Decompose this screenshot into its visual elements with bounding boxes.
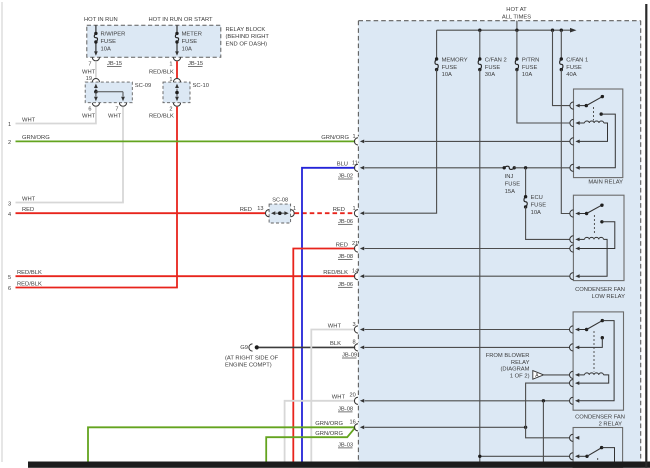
svg-text:5: 5 bbox=[8, 275, 11, 281]
svg-text:FUSE: FUSE bbox=[182, 39, 198, 45]
svg-text:SC-08: SC-08 bbox=[272, 197, 288, 203]
wire C/FAN2 fuse to bottom relay pin bbox=[480, 455, 570, 457]
svg-text:GRN/ORG: GRN/ORG bbox=[22, 135, 50, 141]
svg-text:RED/BLK: RED/BLK bbox=[149, 114, 174, 120]
svg-text:LOW RELAY: LOW RELAY bbox=[592, 294, 626, 300]
CONDENSER FAN 2 RELAY mech link bbox=[593, 331, 595, 372]
box edge connector pins (left edge) bbox=[354, 138, 358, 145]
svg-text:WHT: WHT bbox=[108, 114, 122, 120]
node INJ/ECU junction bbox=[524, 166, 527, 169]
wire RED/BLK row 5 to box pin 14 JB-06 bbox=[16, 275, 356, 277]
wire GRN/ORG internal JB pin1 to MAIN RELAY bbox=[365, 140, 570, 142]
svg-text:WHT: WHT bbox=[22, 117, 36, 123]
relay condenser fan high (cut off at bottom) bbox=[573, 428, 623, 468]
wire GRN/ORG second branch from pin 16 bbox=[266, 428, 355, 462]
wire RED dashed from SC-08 to box pin 1 JB-06 bbox=[295, 212, 356, 214]
wire JB pin3 WHT to CONDENSER FAN 2 RELAY bbox=[365, 329, 570, 331]
splice SC-10 bbox=[163, 82, 190, 103]
svg-text:FROM BLOWER: FROM BLOWER bbox=[486, 353, 530, 359]
big relay/fuse box background (HOT AT ALL TIMES box) bbox=[358, 21, 640, 468]
svg-text:4: 4 bbox=[8, 212, 11, 218]
wire MEMORY fuse to JB-06 pin 1 bbox=[365, 70, 437, 214]
wire RED vertical and to box pin 21 JB-08 bbox=[293, 249, 355, 462]
svg-text:ENGINE COMPT): ENGINE COMPT) bbox=[225, 363, 272, 369]
wire JB-08 pin21 to CONDENSER FAN LOW RELAY bbox=[365, 248, 570, 250]
wire BLU vertical and to box pin 11 JB-02 bbox=[302, 168, 355, 462]
splice SC-08 bbox=[269, 204, 291, 223]
fuse R/WIPER FUSE 10A bbox=[95, 25, 97, 33]
svg-text:2: 2 bbox=[8, 140, 11, 146]
fuse C/FAN 1 FUSE 40A bbox=[560, 30, 562, 59]
wire BLK from G9 to box pin 8 JB-09 bbox=[259, 346, 356, 348]
wire bus to MAIN RELAY switch pin bbox=[553, 30, 570, 105]
svg-text:1: 1 bbox=[293, 206, 296, 212]
svg-text:RED: RED bbox=[22, 207, 34, 213]
svg-text:1: 1 bbox=[169, 62, 172, 68]
svg-text:MEMORY: MEMORY bbox=[442, 57, 468, 63]
svg-text:(DIAGRAM: (DIAGRAM bbox=[501, 367, 530, 373]
feed wire from top edge bbox=[516, 21, 518, 31]
wire JB-03 pin16 to coil return junction bbox=[365, 426, 526, 428]
wire JB-08 pin20 WHT to CONDENSER FAN 2 RELAY bbox=[365, 400, 570, 402]
svg-text:1: 1 bbox=[8, 122, 11, 128]
wire CONDENSER FAN 2 RELAY coil return down to bottom relay bbox=[526, 383, 570, 438]
svg-text:G9: G9 bbox=[240, 345, 248, 351]
svg-text:CONDENSER FAN: CONDENSER FAN bbox=[575, 287, 625, 293]
CONDENSER FAN LOW RELAY mech link bbox=[593, 215, 595, 235]
svg-text:10A: 10A bbox=[101, 46, 111, 52]
svg-text:10A: 10A bbox=[522, 72, 532, 78]
wire C/FAN2 fuse down to bottom relay bbox=[479, 70, 481, 462]
MAIN RELAY switch bbox=[579, 105, 587, 107]
wire GRN/ORG row to box pin 16 JB-03 and down at far left bbox=[88, 427, 355, 461]
fuse ECU FUSE 10A bbox=[525, 168, 527, 197]
svg-text:BLU: BLU bbox=[337, 162, 348, 168]
svg-text:RED/BLK: RED/BLK bbox=[17, 270, 42, 276]
wire WHT to box pin 20 JB-08 and down bbox=[285, 401, 356, 462]
svg-text:CONDENSER FAN: CONDENSER FAN bbox=[575, 415, 625, 421]
wire JB-06 pin14 to CONDENSER FAN LOW RELAY bbox=[365, 275, 570, 277]
svg-text:HOT IN RUN: HOT IN RUN bbox=[84, 17, 118, 23]
fuse INJ FUSE 15A bbox=[503, 166, 506, 169]
svg-text:FUSE: FUSE bbox=[505, 182, 521, 188]
svg-text:RED: RED bbox=[240, 207, 252, 213]
svg-text:7: 7 bbox=[88, 62, 91, 68]
svg-text:FUSE: FUSE bbox=[522, 65, 538, 71]
MAIN RELAY coil bbox=[579, 122, 585, 124]
svg-text:(AT RIGHT SIDE OF: (AT RIGHT SIDE OF bbox=[225, 356, 279, 362]
svg-text:METER: METER bbox=[182, 32, 202, 38]
svg-text:RED: RED bbox=[333, 207, 345, 213]
svg-text:INJ: INJ bbox=[505, 174, 514, 180]
svg-text:GRN/ORG: GRN/ORG bbox=[315, 431, 343, 437]
svg-text:C/FAN 2: C/FAN 2 bbox=[485, 57, 507, 63]
svg-text:40A: 40A bbox=[566, 72, 576, 78]
wire GRN/ORG row 2 to box pin 1 bbox=[16, 140, 356, 142]
svg-text:RELAY: RELAY bbox=[511, 360, 530, 366]
fuse MEMORY FUSE 10A bbox=[436, 30, 438, 59]
wire P/TRN fuse to MAIN RELAY coil pin bbox=[517, 70, 570, 123]
svg-text:BLK: BLK bbox=[330, 341, 341, 347]
svg-text:RED/BLK: RED/BLK bbox=[149, 70, 174, 76]
svg-text:10A: 10A bbox=[442, 72, 452, 78]
connector JB-15 pin 7 bbox=[92, 57, 99, 61]
CONDENSER FAN LOW RELAY coil bbox=[578, 238, 584, 240]
relay CONDENSER FAN LOW RELAY bbox=[573, 195, 624, 280]
svg-text:HOT AT: HOT AT bbox=[506, 7, 527, 13]
node bus-C/FAN1 bbox=[560, 29, 563, 32]
svg-text:RELAY BLOCK: RELAY BLOCK bbox=[226, 27, 266, 33]
fuse METER FUSE 10A bbox=[176, 25, 178, 33]
MAIN RELAY mech link bbox=[593, 107, 595, 121]
svg-text:RED/BLK: RED/BLK bbox=[17, 281, 42, 287]
wire WHT to box pin 3 and down bbox=[311, 330, 355, 462]
wire WHT20 branch down to bottom bbox=[542, 401, 544, 462]
svg-text:WHT: WHT bbox=[328, 323, 342, 329]
node bus-C/FAN2 bbox=[478, 29, 481, 32]
relay MAIN RELAY bbox=[574, 89, 623, 178]
svg-text:(BEHIND RIGHT: (BEHIND RIGHT bbox=[226, 34, 270, 40]
svg-text:ALL TIMES: ALL TIMES bbox=[502, 15, 531, 21]
svg-text:WHT: WHT bbox=[82, 70, 96, 76]
bottom relay mech link bbox=[597, 458, 599, 462]
svg-text:2 RELAY: 2 RELAY bbox=[599, 422, 623, 428]
wire C/FAN1 fuse down to CONDENSER FAN LOW RELAY switch pin bbox=[561, 70, 569, 214]
svg-text:SC-10: SC-10 bbox=[193, 83, 209, 89]
fuse P/TRN FUSE 10A bbox=[516, 30, 518, 59]
svg-text:20: 20 bbox=[350, 392, 356, 398]
svg-text:ECU: ECU bbox=[531, 195, 543, 201]
svg-text:GRN/ORG: GRN/ORG bbox=[315, 421, 343, 427]
svg-text:MAIN RELAY: MAIN RELAY bbox=[588, 179, 623, 185]
svg-text:15A: 15A bbox=[505, 189, 515, 195]
svg-text:7: 7 bbox=[115, 106, 118, 112]
svg-text:R/WIPER: R/WIPER bbox=[101, 32, 126, 38]
svg-text:END OF DASH): END OF DASH) bbox=[226, 42, 268, 48]
svg-text:WHT: WHT bbox=[82, 114, 96, 120]
wire RED/BLK from JB-15 pin1 to SC-10 pin 1 bbox=[176, 61, 178, 78]
CONDENSER FAN 2 RELAY switch bbox=[578, 329, 587, 331]
svg-text:GRN/ORG: GRN/ORG bbox=[321, 135, 349, 141]
wire RED row 4 to splice SC-08 bbox=[16, 212, 266, 214]
wire from arrow A to CONDENSER FAN 2 RELAY coil pin bbox=[544, 374, 570, 376]
wire ECU fuse to CONDENSER FAN LOW RELAY coil pin bbox=[526, 207, 570, 240]
wire JB-09 pin8 BLK to CONDENSER FAN 2 RELAY bbox=[365, 346, 570, 348]
svg-text:SC-09: SC-09 bbox=[135, 83, 151, 89]
svg-text:RED: RED bbox=[336, 242, 348, 248]
wire WHT from JB-15 pin7 to SC-09 pin 19 bbox=[95, 61, 97, 78]
node C/FAN2 bottom junction bbox=[478, 455, 481, 458]
svg-text:10A: 10A bbox=[182, 46, 192, 52]
relay block box (behind right end of dash) bbox=[87, 25, 221, 57]
node WHT20 branch bbox=[542, 399, 545, 402]
svg-text:6: 6 bbox=[88, 106, 91, 112]
svg-text:FUSE: FUSE bbox=[531, 203, 547, 209]
bottom relay switch bbox=[578, 455, 587, 457]
connector JB-15 pin 1 bbox=[173, 57, 180, 61]
svg-text:10A: 10A bbox=[531, 210, 541, 216]
node coil return junction bbox=[524, 426, 527, 429]
CONDENSER FAN LOW RELAY switch bbox=[578, 213, 586, 215]
svg-text:FUSE: FUSE bbox=[101, 39, 117, 45]
svg-text:HOT IN RUN OR START: HOT IN RUN OR START bbox=[149, 17, 214, 23]
svg-text:WHT: WHT bbox=[332, 395, 346, 401]
bottom black bar bbox=[28, 462, 650, 468]
svg-text:2: 2 bbox=[169, 106, 172, 112]
svg-text:RED/BLK: RED/BLK bbox=[323, 270, 348, 276]
page right border line bbox=[645, 4, 647, 468]
splice SC-09 bbox=[85, 82, 132, 103]
svg-text:19: 19 bbox=[86, 76, 92, 82]
svg-text:FUSE: FUSE bbox=[442, 65, 458, 71]
svg-text:WHT: WHT bbox=[22, 196, 36, 202]
svg-text:FUSE: FUSE bbox=[485, 65, 501, 71]
svg-text:P/TRN: P/TRN bbox=[522, 57, 539, 63]
svg-text:FUSE: FUSE bbox=[566, 65, 582, 71]
svg-text:30A: 30A bbox=[485, 72, 495, 78]
page left border line bbox=[1, 2, 3, 462]
big box dashed border bbox=[357, 21, 359, 137]
CONDENSER FAN 2 RELAY coil bbox=[578, 374, 584, 376]
wire BLU internal JB-02 pin11 through INJ fuse to MAIN RELAY bbox=[365, 167, 505, 169]
node bus-P/TRN bbox=[515, 29, 518, 32]
svg-text:6: 6 bbox=[8, 286, 11, 292]
svg-text:C/FAN 1: C/FAN 1 bbox=[566, 57, 588, 63]
svg-text:1 OF 2): 1 OF 2) bbox=[510, 373, 530, 379]
relay CONDENSER FAN 2 RELAY bbox=[573, 312, 623, 410]
bus wire with arrow bbox=[437, 29, 571, 31]
fuse C/FAN 2 FUSE 30A bbox=[479, 30, 481, 59]
svg-text:13: 13 bbox=[257, 206, 263, 212]
node bus-main relay feed bbox=[551, 29, 554, 32]
svg-text:3: 3 bbox=[8, 201, 11, 207]
